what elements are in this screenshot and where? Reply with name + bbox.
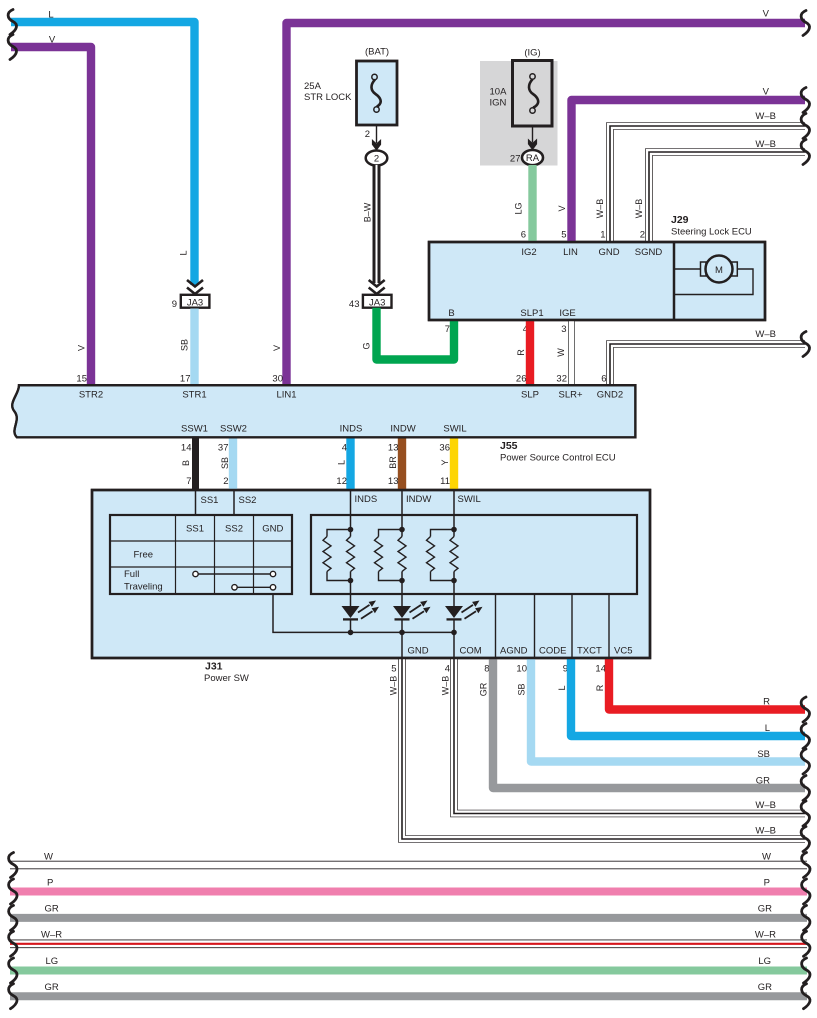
J55 band border overlay [12, 385, 635, 437]
stub SS2 inside J31 [233, 490, 235, 515]
switch state table [110, 515, 292, 594]
svg-text:2: 2 [223, 476, 228, 487]
wire L from J55 INDS to J31 INDS [346, 436, 354, 490]
svg-text:V: V [49, 35, 56, 46]
pin numbers above J31 [186, 476, 450, 487]
svg-text:17: 17 [180, 374, 191, 385]
break symbol W-B 2 [801, 140, 809, 165]
wire L from J31 TXCT pin 9 to right break [571, 658, 805, 736]
svg-text:INDW: INDW [406, 494, 431, 505]
svg-text:COM: COM [460, 646, 482, 657]
svg-text:SLR+: SLR+ [558, 390, 582, 401]
ECU J29 Steering Lock box [429, 242, 765, 320]
bus wire LG [10, 967, 807, 975]
LED INDS [342, 601, 380, 633]
svg-text:3: 3 [561, 324, 566, 335]
svg-text:GR: GR [758, 904, 772, 915]
junction ellipse 2 [366, 151, 388, 166]
LED INDW [393, 601, 431, 633]
svg-text:GR: GR [758, 982, 772, 993]
svg-text:W–B: W–B [755, 826, 776, 837]
break symbol GR pin8 [801, 776, 809, 801]
wire W-B from J29 pin 2 SGND up right to break [649, 152, 805, 242]
svg-text:Power Source Control ECU: Power Source Control ECU [500, 453, 616, 464]
svg-text:JA3: JA3 [187, 297, 203, 308]
svg-text:B: B [181, 460, 191, 466]
svg-text:SWIL: SWIL [458, 494, 481, 505]
wire GR from J31 pin 8 to right break [493, 658, 805, 788]
svg-text:25A: 25A [304, 81, 322, 92]
svg-text:GND: GND [262, 524, 283, 535]
svg-text:STR1: STR1 [182, 390, 206, 401]
svg-text:IG2: IG2 [521, 247, 536, 258]
wire SB from J31 AGND pin 10 to right break [531, 658, 805, 762]
wire from fuse to junction 2 with arrowhead [376, 125, 378, 143]
break symbol W-B pin4 [801, 801, 809, 826]
svg-text:RA: RA [526, 153, 540, 164]
svg-text:27: 27 [510, 154, 521, 165]
wire SB from JA3 to J55 STR1 [190, 309, 198, 386]
junction node LED SWIL [451, 630, 457, 636]
svg-text:10A: 10A [490, 87, 508, 98]
wire LG from RA to J29 pin 6 IG2 [528, 165, 536, 242]
break symbol L pin9 [801, 724, 809, 749]
motor M inside J29 [674, 256, 753, 295]
svg-text:36: 36 [439, 443, 450, 454]
wire from switch GND column to LED cathode rail [273, 594, 454, 632]
break symbol W-B pin5 [801, 827, 809, 852]
wire G (green) from JA3 43 to J29 pin 7 B [377, 308, 455, 360]
svg-text:SB: SB [220, 457, 230, 469]
svg-text:BR: BR [388, 456, 398, 469]
wire W-B from J31 COM pin 4 to right break [454, 658, 805, 814]
svg-text:9: 9 [172, 299, 177, 310]
svg-text:13: 13 [388, 443, 399, 454]
svg-text:GR: GR [756, 776, 770, 787]
wire BR from J55 INDW to J31 INDW [398, 436, 406, 490]
svg-text:L: L [179, 250, 189, 255]
wire W-B from J29 pin 1 GND up right to break [610, 126, 805, 242]
svg-text:P: P [47, 878, 53, 889]
wire INDS inside J31 [350, 490, 352, 537]
svg-text:8: 8 [484, 664, 489, 675]
svg-text:TXCT: TXCT [577, 646, 602, 657]
fuse 25A STR LOCK (BAT) [304, 47, 397, 126]
svg-text:IGN: IGN [490, 98, 507, 109]
svg-text:L: L [337, 460, 347, 465]
svg-text:W–B: W–B [595, 199, 605, 219]
svg-text:J31: J31 [205, 661, 223, 673]
svg-text:Steering Lock ECU: Steering Lock ECU [671, 227, 752, 238]
resistor pair SWIL [427, 527, 459, 584]
svg-text:SS1: SS1 [186, 524, 204, 535]
junction node LED INDS [348, 630, 354, 636]
svg-text:14: 14 [595, 664, 606, 675]
svg-text:B: B [448, 308, 454, 319]
break symbol SB pin10 [801, 749, 809, 774]
wire from fuse IG to junction RA with arrowhead [532, 126, 534, 143]
wire SWIL inside J31 [453, 490, 455, 537]
stub SS1 inside J31 [195, 490, 197, 515]
svg-text:STR LOCK: STR LOCK [304, 92, 352, 103]
svg-text:R: R [595, 684, 605, 691]
J29 border overlay [429, 242, 765, 320]
bus wire W [10, 861, 807, 870]
svg-text:W–B: W–B [755, 800, 776, 811]
connector J55 Power Source Control ECU band [12, 385, 635, 437]
J29 pin labels top [521, 230, 663, 259]
svg-text:W: W [762, 852, 771, 863]
svg-text:(BAT): (BAT) [365, 47, 389, 58]
resistor network box [311, 515, 637, 594]
J29 pin labels bottom [445, 308, 576, 335]
svg-text:IGE: IGE [559, 308, 575, 319]
svg-text:STR2: STR2 [79, 390, 103, 401]
svg-text:Y: Y [440, 459, 450, 465]
pin numbers below J31 [391, 664, 606, 675]
svg-text:7: 7 [445, 324, 450, 335]
svg-text:W–B: W–B [755, 111, 776, 122]
J55 pin labels bottom row [181, 424, 467, 435]
svg-text:SGND: SGND [635, 247, 663, 258]
wire V (violet) from J55 LIN1 up and right to break [287, 23, 806, 385]
J55 pin labels top row [79, 390, 623, 401]
svg-text:Traveling: Traveling [124, 582, 163, 593]
svg-text:2: 2 [640, 230, 645, 241]
wire W-B from J31 GND pin 5 to right break [402, 658, 805, 839]
break symbol top right V [801, 11, 809, 36]
svg-text:4: 4 [342, 443, 347, 454]
wire W-B from J55 GND2 up right to break [610, 344, 805, 385]
svg-text:V: V [77, 345, 87, 351]
svg-text:SS2: SS2 [225, 524, 243, 535]
svg-text:37: 37 [218, 443, 229, 454]
svg-text:6: 6 [521, 230, 526, 241]
wire W from J29 IGE to J55 SLR+ [568, 320, 575, 385]
svg-text:W: W [44, 852, 53, 863]
svg-text:Power SW: Power SW [204, 673, 249, 684]
svg-text:P: P [764, 878, 770, 889]
svg-text:V: V [763, 9, 770, 20]
svg-text:5: 5 [391, 664, 396, 675]
svg-text:26: 26 [516, 374, 527, 385]
svg-text:14: 14 [181, 443, 192, 454]
svg-text:V: V [557, 205, 567, 211]
svg-text:12: 12 [336, 476, 347, 487]
svg-text:INDW: INDW [390, 424, 415, 435]
wire Y from J55 SWIL to J31 SWIL [450, 436, 458, 490]
svg-text:10: 10 [516, 664, 527, 675]
svg-text:15: 15 [76, 374, 87, 385]
svg-text:B–W: B–W [363, 202, 373, 222]
break symbol GND2 W-B [801, 332, 809, 357]
break symbol V right [801, 88, 809, 113]
wire L (blue) from left break to junction JA3 [11, 22, 195, 285]
resistor pair INDS [323, 527, 355, 584]
wire rail to GND pin [401, 632, 403, 658]
svg-text:GR: GR [45, 982, 59, 993]
svg-text:5: 5 [561, 230, 566, 241]
J55 pin numbers above band [76, 374, 606, 385]
svg-text:SS1: SS1 [201, 495, 219, 506]
resistor pair INDW [375, 527, 407, 584]
wire B-W double line from junction 2 down to JA3 (43) [373, 165, 381, 283]
bus wire GR 1 [10, 914, 807, 922]
svg-text:L: L [765, 723, 770, 734]
wire SB from J55 SSW2 to J31 SS2 [229, 436, 237, 490]
svg-text:GND2: GND2 [597, 390, 623, 401]
arrow chevrons into junction 9 JA3 [187, 280, 203, 294]
svg-text:LG: LG [46, 956, 59, 967]
svg-text:GND: GND [408, 646, 429, 657]
wire V (violet) from break down to J29 pin 5 LIN [572, 100, 806, 242]
svg-text:W–R: W–R [755, 930, 776, 941]
arrow chevrons into junction 43 JA3 [369, 280, 385, 294]
svg-text:V: V [763, 87, 770, 98]
J31 border overlay [92, 490, 650, 658]
svg-text:L: L [48, 10, 53, 21]
svg-text:Full: Full [124, 569, 139, 580]
break symbol R pin14 [801, 697, 809, 722]
bus wire GR 2 [10, 992, 807, 1000]
svg-text:J55: J55 [500, 440, 518, 452]
svg-text:SB: SB [517, 683, 527, 695]
break symbol wire L left edge [8, 10, 16, 35]
svg-text:13: 13 [388, 476, 399, 487]
svg-text:J29: J29 [671, 214, 689, 226]
svg-text:GR: GR [45, 904, 59, 915]
svg-text:SSW1: SSW1 [181, 424, 208, 435]
rotated wire labels between J55 and J31 [181, 456, 450, 469]
svg-text:SS2: SS2 [239, 495, 257, 506]
wire B from J55 SSW1 to J31 SS1 [192, 436, 199, 490]
svg-text:SSW2: SSW2 [220, 424, 247, 435]
svg-text:M: M [715, 265, 723, 276]
bus wire W-R [10, 939, 807, 948]
svg-text:Free: Free [134, 550, 154, 561]
switch contact SS1-GND (Full Traveling) [193, 571, 276, 576]
svg-text:2: 2 [374, 154, 379, 165]
svg-text:30: 30 [272, 374, 283, 385]
svg-text:CODE: CODE [539, 646, 566, 657]
junction ellipse RA [522, 150, 543, 165]
svg-text:R: R [763, 697, 770, 708]
svg-text:4: 4 [445, 664, 450, 675]
wire R from J29 SLP1 to J55 SLP [526, 320, 534, 385]
svg-text:(IG): (IG) [524, 48, 540, 59]
svg-text:SLP1: SLP1 [520, 308, 543, 319]
switch contact SS2-GND (Full Traveling) [232, 585, 276, 590]
fuse 10A IGN (IG) with gray background [480, 48, 558, 166]
wire INDW inside J31 [401, 490, 403, 537]
svg-text:1: 1 [600, 230, 605, 241]
svg-text:W–B: W–B [755, 329, 776, 340]
svg-text:LIN: LIN [563, 247, 578, 258]
svg-text:SB: SB [757, 749, 770, 760]
J31 bottom cell dividers [496, 594, 610, 658]
svg-text:W–R: W–R [41, 930, 62, 941]
svg-text:G: G [362, 342, 372, 349]
break symbol wire V left edge [8, 35, 16, 60]
wire R from J31 VC5 pin 14 to right break [609, 658, 805, 710]
J31 bottom pin labels [408, 646, 633, 657]
svg-text:W–B: W–B [634, 199, 644, 219]
svg-text:R: R [516, 349, 526, 356]
switch J31 Power SW box [92, 490, 650, 658]
bus wire P [10, 888, 807, 896]
svg-text:LIN1: LIN1 [276, 390, 296, 401]
svg-text:GND: GND [598, 247, 619, 258]
pin numbers below J55 [181, 443, 450, 454]
svg-text:LG: LG [514, 202, 524, 214]
junction node LED INDW [399, 630, 405, 636]
svg-text:V: V [272, 345, 282, 351]
svg-text:32: 32 [556, 374, 567, 385]
svg-text:AGND: AGND [500, 646, 528, 657]
svg-text:SWIL: SWIL [443, 424, 466, 435]
svg-text:43: 43 [349, 299, 360, 310]
svg-text:W: W [556, 348, 566, 357]
svg-text:W–B: W–B [389, 676, 399, 696]
svg-text:2: 2 [365, 129, 370, 140]
svg-text:INDS: INDS [340, 424, 363, 435]
break symbol W-B 1 [801, 114, 809, 139]
svg-text:LG: LG [758, 956, 771, 967]
svg-text:11: 11 [440, 476, 450, 487]
svg-text:SLP: SLP [521, 390, 539, 401]
svg-text:W–B: W–B [441, 676, 451, 696]
wire V (violet) from left break down to J55 STR2 [11, 47, 91, 385]
LED SWIL [445, 601, 483, 633]
svg-text:INDS: INDS [355, 494, 378, 505]
junction connector JA3 (9) [172, 295, 210, 310]
svg-text:W–B: W–B [755, 139, 776, 150]
svg-text:7: 7 [186, 476, 191, 487]
svg-text:SB: SB [180, 339, 190, 351]
junction connector JA3 (43) [349, 295, 392, 310]
svg-text:VC5: VC5 [614, 646, 632, 657]
wire rail to COM pin [453, 632, 455, 658]
svg-text:GR: GR [479, 682, 489, 696]
svg-text:6: 6 [601, 374, 606, 385]
svg-text:JA3: JA3 [369, 297, 385, 308]
svg-text:L: L [557, 685, 567, 690]
